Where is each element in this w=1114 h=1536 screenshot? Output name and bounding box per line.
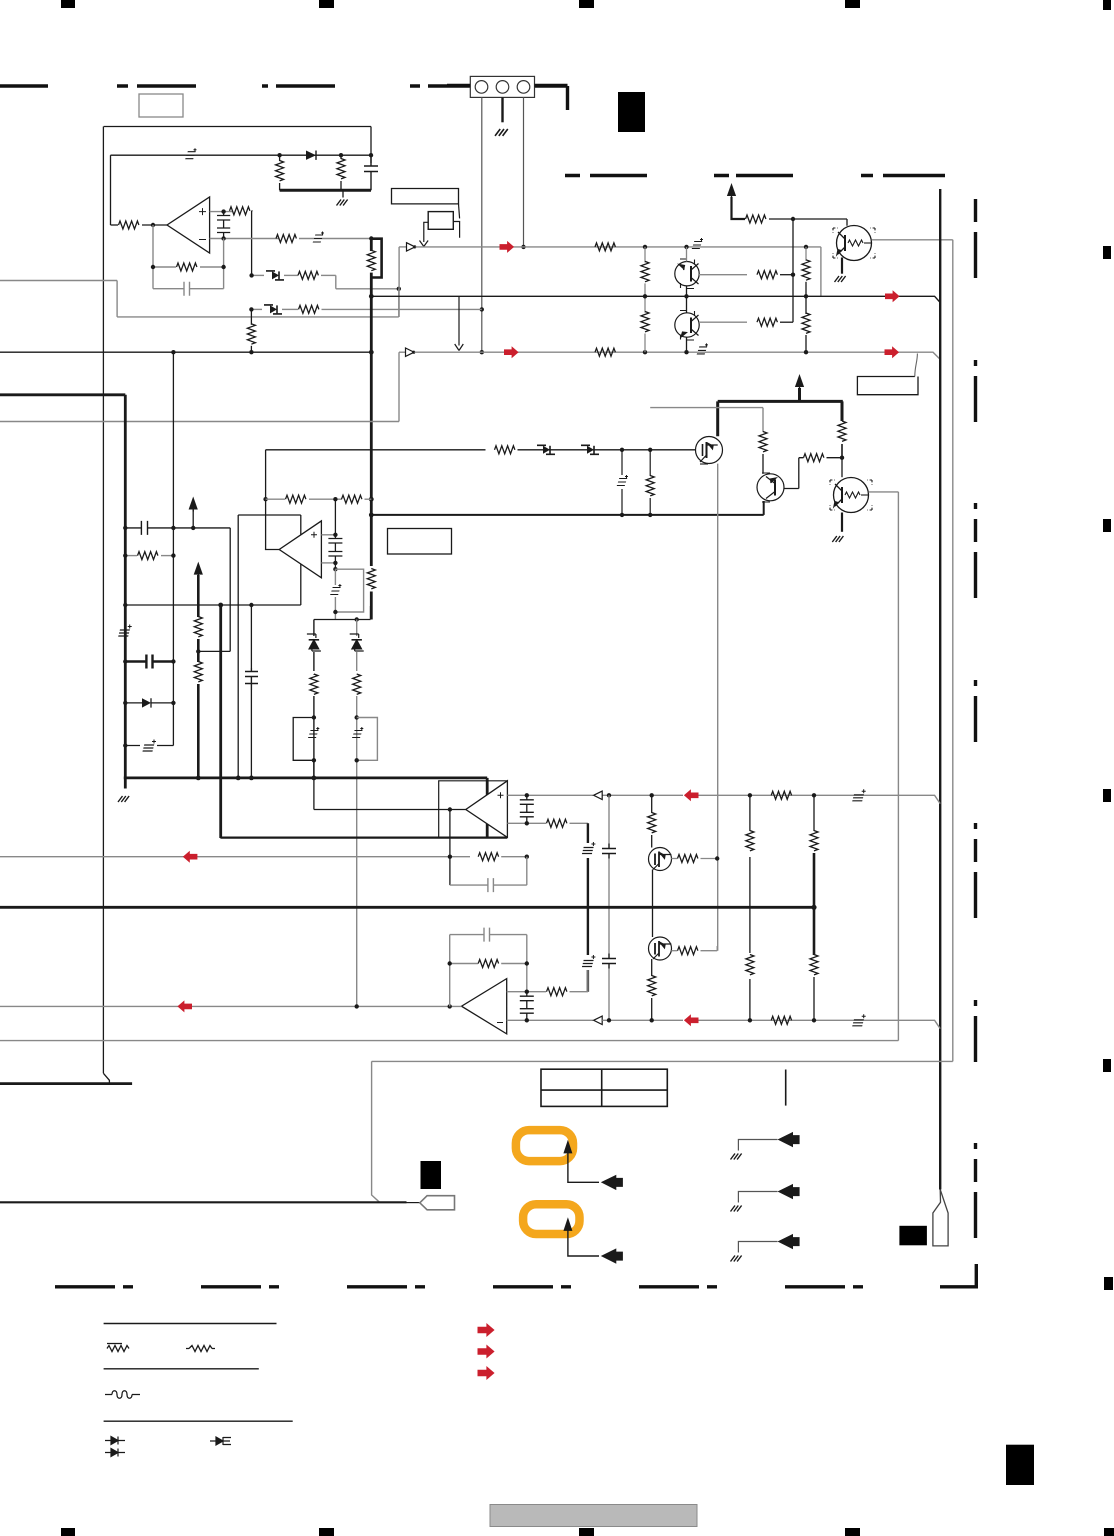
wire y1202 to tag [0,1201,407,1203]
resistor R44 y1020 [771,1016,791,1024]
border top-left dash-dot [0,84,470,87]
op-amp U5 [462,979,507,1034]
capacitor C4 row y528 [125,521,230,535]
flow triangle left y1020 [594,1016,603,1024]
leader callout to part [459,204,460,219]
legend diode 3 [210,1437,231,1445]
power arrow x198 [194,562,203,577]
border right dash-dot [974,199,977,1250]
node fb U5 right [525,961,529,965]
wire row3 riser to row1 [398,289,400,317]
node line352 x251 [249,350,253,354]
resistor R10 in bus x371 top [367,250,375,270]
output wire U5 y1006 long [0,1005,462,1007]
wire Q3 emitter [686,338,688,353]
node C4 right [171,526,175,530]
wire Q3 collector [686,296,688,313]
legend inductor [105,1391,140,1399]
resistor R26 row y556 [125,555,137,557]
transistor Q4 driver [757,473,784,502]
node opamp1 output [151,223,155,227]
row3 wire y317 [117,316,399,318]
node pin3 wire1 junction [521,245,525,249]
box chain1 zener [293,718,314,761]
gray vertical right x953 [952,240,954,1062]
wire supply to R14 [732,197,746,219]
ecap row y745 [125,745,173,747]
crop mark right 6 [1104,1277,1113,1290]
column x651 resistor lower [651,959,653,976]
main black bus vertical x940 [939,189,941,1190]
wire U5 bottom y1020 [507,1019,593,1021]
wire corner x230 [198,528,230,652]
callout label box right [857,377,918,395]
thick bus y778 [124,777,487,780]
feedback wire y856 long [0,856,470,858]
crop mark right 3 [1103,519,1111,532]
node wire1 x806 [804,245,808,249]
ground x125 bottom [118,796,129,802]
zener D4 on wire1 [692,238,703,249]
node C6 left [123,659,127,663]
node arrow base [191,526,195,530]
node apex wire x449 [448,807,452,811]
resistor R19 x806 upper [805,247,807,261]
capacitor C1 vertical [364,155,378,190]
arrow up into orange2 [563,1217,572,1231]
resistor R20 x806 lower [805,296,807,314]
connector tag bottom of bus [933,1190,948,1246]
wire FET source gray down [717,464,719,951]
node feedback right [221,265,225,269]
crop mark bottom right corner [1104,1528,1114,1536]
node top rail R2 junction [339,153,343,157]
wire Q8 base [671,950,677,952]
node wire2 x806 [804,350,808,354]
thick chain x198 [197,575,200,617]
node y1020 x749 [748,1018,752,1022]
black blob bottom right [899,1226,927,1246]
node row1 start [249,273,253,277]
red arrow left y795 [684,789,699,801]
wire thick bottom of R1 R2 C1 [280,189,371,192]
resistor R13 wire2 [595,348,615,356]
line y296 to right bus [371,296,940,302]
resistor R33 U4 [547,819,567,827]
crop mark right 2 [1103,246,1111,259]
crop mark top 3 [579,0,594,8]
output box top wire y1061 [372,1060,953,1062]
node line352 x173 [171,350,175,354]
red arrow wire2 [504,346,519,358]
crop mark bottom 2 [319,1528,334,1536]
node chain2 y717 [355,715,359,719]
node wire1 x687 [684,245,688,249]
node R26 left [123,553,127,557]
orange rounded rect 1 [516,1130,573,1161]
speaker arrow 2 [601,1248,623,1263]
gray vertical x898 [897,492,899,1041]
FET Q7 [649,848,672,871]
node fb U5 left [448,961,452,965]
wire2 y352 gray [399,351,405,353]
flow triangle left y795 [594,791,603,799]
node y856 x449 [448,855,452,859]
loop rect with zener [335,569,363,619]
op-amp U4 [466,781,508,838]
capacitor C12 feedback U5 [450,928,527,960]
resistor R14 [746,215,766,223]
zener D3 on minus chain [313,232,324,243]
crop mark bottom 1 [61,1528,75,1536]
wire U3 minus input [321,562,335,564]
line y605 [125,604,300,606]
wire Q4 emitter down [763,501,765,515]
down arrow tap x459 [458,296,460,345]
border bottom dash-dot [55,1285,930,1288]
wire U4 top input [507,794,593,796]
node y619 x356 [355,617,359,621]
wire Q1 collector gray right [872,239,953,241]
resistor R37 Q8 base [678,947,698,955]
node plus input [221,209,225,213]
node y1006 x449 [448,1004,452,1008]
zener D5 on wire2 [697,343,708,354]
wire opamp1 minus input [210,238,279,240]
resistor R9 vertical x251 [250,309,252,324]
node bus res row [369,497,374,502]
wire Q2 emitter [686,286,688,296]
resistor R32 chain2 [353,674,361,694]
thick left stub y1083 [0,1082,132,1085]
node row2 start [249,307,253,311]
speaker arrow right 1 [778,1132,800,1147]
node y1020 x814 [812,1018,816,1022]
node x793 y219 [791,217,795,221]
resistor R29 row y499 [266,498,285,500]
resistor R4 plus input [230,207,250,215]
resistor R42 feedback U5 [450,963,478,965]
row2 wire y309 [251,308,262,310]
resistor R3 input [111,224,119,226]
node y795 x749 [748,793,752,797]
zener D1 on top rail [185,148,196,159]
crop mark top 2 [319,0,334,8]
wire top rail y155 [111,154,372,156]
node bus x251 [249,776,254,781]
connector pin circle 3 [517,81,530,94]
node bus x238 [236,776,241,781]
transistor Q3 [675,311,699,341]
ground connector pin2 [495,129,508,136]
node bus line296 [369,294,374,299]
wire y619 header [314,606,371,620]
node Q2 emitter [684,294,688,298]
node x198 y651 [196,649,200,653]
node chain1 y717 [312,715,316,719]
gray footer rectangle [490,1505,697,1527]
resistor R34 feedback U4 [478,853,498,861]
flow triangle wire1 [407,243,417,251]
wire to ground r2 [738,1192,777,1203]
wire2 feed vertical x399 [0,352,399,421]
capacitor C11 x609 [602,954,616,969]
output box left edge [372,1061,380,1202]
node U5 x526 top [525,990,529,994]
capacitor C13 twin x526 lower [520,992,534,1021]
wire Q2 collector [686,247,688,262]
diode D7 row y703 [125,702,142,704]
line y352 left black [0,351,371,353]
block1 box right edge [370,127,372,164]
border top-right dash-dot [565,174,945,177]
node R26 right [171,553,175,557]
gray wire y1040 long [0,1040,898,1042]
resistor R31 chain1 [310,674,318,694]
wire Q1 emitter to ground [841,258,843,274]
crop mark top 4 [845,0,860,8]
resistor R27 x198 [194,617,202,637]
diode box DB2 [264,305,282,314]
ecap glyph x125 [118,625,131,637]
wire to ground r1 [738,1140,777,1151]
column x814 [813,795,815,831]
connector CN1 body [470,76,534,97]
connector pin circle 2 [496,81,509,94]
resistor R28 x198 [194,662,202,682]
wire1 y247 gray [399,246,406,248]
resistor R24 gate line [495,446,515,454]
node D7 left [123,701,127,705]
thick vertical bus x371 [370,239,373,620]
ecap glyph y795 [852,789,865,801]
bracket thick at R10 [371,239,381,278]
node U3 plus [333,533,337,537]
red arrow wire1 [500,241,515,253]
crop mark bottom 3 [579,1528,594,1536]
op-amp U3 [279,521,321,578]
node gate x650 [648,448,652,452]
wire y1020 right [602,1019,683,1021]
wire border stub into connector [447,84,470,87]
gate line y450 [266,449,486,451]
callout label box mid [388,529,452,555]
wire U4 out y795 right [602,794,683,796]
legend rule 3 [104,1420,293,1422]
connector pin circle 1 [475,81,488,94]
chain1 continuation to opamp [314,760,466,809]
node y1020 x609 [607,1018,611,1022]
crop mark bottom 4 [845,1528,860,1536]
node x645 line296 [643,294,647,298]
node y1006 x356 [355,1004,359,1008]
ground block1 [342,190,344,197]
legend diode 1 [105,1437,125,1445]
resistor R38 x749 upper [746,831,754,851]
chain1 vertical black [313,620,315,778]
feedback U5 vertical x449 [449,935,451,1007]
black blob bottom far right [1006,1445,1034,1485]
node y795 x609 [607,793,611,797]
vertical x174 [172,352,174,745]
wire to ground r3 [738,1242,777,1253]
wire Q5 base vertical [841,458,843,478]
column x651 resistor upper [651,795,653,813]
wire left stub y280 [0,281,117,317]
component box small relay [428,212,453,230]
node gate x622 [620,448,624,452]
vertical x609 caps [608,795,610,1020]
node bus wire2 [369,350,374,355]
ground Q1 [835,276,846,282]
speaker arrow 1 [601,1175,623,1190]
wire Q3 base [699,321,747,323]
wire bias vertical x793 [792,219,794,322]
wire relay left lead arrow down [424,222,428,242]
diode box DB4 [581,445,599,454]
node U5 x526 bottom [525,1018,529,1022]
ground r1 [731,1154,742,1160]
leader wire2 to callout [915,354,918,377]
ground r2 [731,1206,742,1212]
resistor R41 x814 lower [810,955,818,975]
diode D2 on top rail [306,151,316,160]
wire row1 corner down [336,275,399,288]
callout box top-left [139,94,183,117]
table 2x2 [541,1069,667,1106]
legend red arrow 2 [478,1344,495,1358]
node ecap left [123,743,127,747]
node x335 y499 [333,497,337,501]
legend red arrow 1 [478,1323,495,1337]
node D7 right [171,701,175,705]
transistor Q1 digital top right [833,226,875,261]
legend resistor style A [107,1344,129,1352]
diode D8 chain1 [307,634,321,651]
wire Q2 base [699,274,747,276]
node x265 res row [263,497,267,501]
node pin1 wire2 junction [480,350,484,354]
node C4 left [123,526,127,530]
ecap glyph y1020 [852,1014,865,1026]
FET Q6 [696,437,723,465]
node y515 x622 [620,513,624,517]
node chain2 y760 [355,758,359,762]
node x335 y612 [333,610,337,614]
red arrow left y1020 [684,1014,699,1026]
node y795 x814 [812,793,816,797]
black blob bottom left [421,1161,442,1189]
node y515 x650 [648,513,652,517]
border top step solid [535,86,568,110]
node U4 x526 bottom [525,821,529,825]
speaker arrow right 2 [778,1184,800,1199]
node top rail R junction [277,153,281,157]
wire connector pin2 to ground [501,97,503,122]
resistor R2 vertical [340,155,342,159]
wire R4 to vertical x251 [251,211,253,276]
capacitor C3 feedback [153,282,224,296]
node pin1 row2 junction [480,307,484,311]
flow triangle wire2 [406,348,416,356]
node y1020 x651 [650,1018,654,1022]
ground Q5 [832,536,843,542]
node x806 line296 [804,294,808,298]
wire Q8 up to bus [652,907,654,937]
feedback vertical x449 U4 [449,810,451,886]
node x793 y274 [791,273,795,277]
resistor R17 Q2 base [757,271,777,279]
diode D9 chain2 [350,634,364,651]
callout label box U2 [392,189,459,204]
resistor R15 x645 upper [644,247,646,263]
crop mark right 5 [1103,1059,1111,1072]
thick supply rail mid [718,388,843,436]
red arrow wire2 right [885,346,900,358]
resistor R22 horizontal [804,454,824,462]
wire connector pin3 vertical [523,97,525,247]
left vertical bottom with jog [103,1073,109,1083]
capacitor C10 x609 [602,844,616,859]
node y605 x251 [249,603,253,607]
node row1 x399 [397,287,401,291]
thick bus corner x487 [486,778,489,837]
border bottom-right corner [940,1264,978,1287]
wire opamp1 plus input [210,211,232,213]
resistor R36 Q7 base [678,855,698,863]
arrow up into orange1 [563,1140,572,1154]
power arrow top right [727,183,736,198]
node bus x198 [196,776,201,781]
wire Q7 down to bus [652,870,654,908]
resistor R1 vertical [279,155,281,161]
resistor R25 column [649,450,651,476]
capacitor C5 electrolytic x251 [245,668,258,690]
vertical x251 with ecap [250,605,252,778]
line y515 [371,514,763,516]
ecap E1 x588 [582,842,595,854]
resistor R11 in bus x371 mid [367,569,375,589]
node x335 y569 [333,567,337,571]
node bus x314 [312,776,317,781]
tag connector left [420,1196,455,1210]
box outline opamp U4 [439,781,508,838]
zener D6 column [621,450,623,475]
resistor R7 row1 [284,274,298,276]
chain2 vertical gray [356,620,358,1007]
resistor R21 [838,421,846,441]
node chain1 y760 [312,758,316,762]
capacitor C8 twin x526 [520,795,534,823]
transistor Q2 [675,259,699,289]
node C6 right [171,659,175,663]
thick vertical x588 with ecaps [587,823,589,991]
ground r3 [731,1256,742,1262]
red arrow left y856 [183,851,198,863]
legend rule 1 [104,1323,277,1325]
op-amp U1 [167,197,210,253]
node top rail right corner [369,153,373,157]
power arrow small x193 [189,497,198,512]
wire U5 top input [507,991,546,993]
legend diode 2 [105,1449,125,1457]
resistor R30 row y499 [342,495,362,503]
FET Q8 [649,937,672,960]
node wire2 x687 [684,350,688,354]
wire Q4 collector up [650,408,763,432]
column x749 [749,795,751,1020]
crop mark right 1 [1103,0,1111,10]
